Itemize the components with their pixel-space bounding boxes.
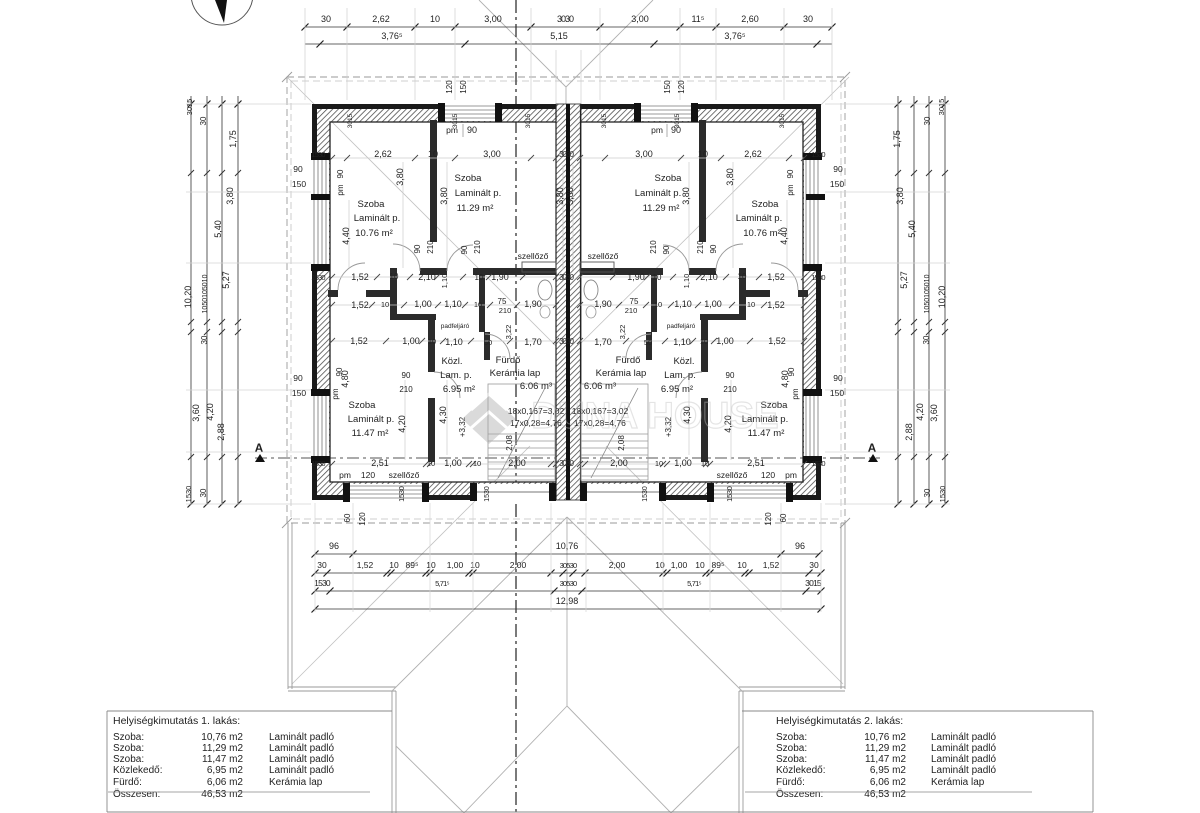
svg-text:2,10: 2,10 — [700, 272, 718, 282]
svg-text:10: 10 — [738, 272, 747, 281]
svg-text:2,60: 2,60 — [741, 14, 759, 24]
svg-text:10: 10 — [655, 560, 665, 570]
svg-text:6,95 m2: 6,95 m2 — [870, 765, 907, 776]
svg-text:30: 30 — [922, 335, 931, 344]
svg-text:50: 50 — [644, 338, 652, 347]
svg-text:120: 120 — [761, 470, 775, 480]
svg-text:120: 120 — [445, 80, 454, 94]
svg-text:1050105010: 1050105010 — [924, 274, 931, 313]
svg-text:3,76⁵: 3,76⁵ — [381, 31, 403, 41]
svg-text:4,20: 4,20 — [205, 403, 215, 421]
svg-text:1530: 1530 — [311, 150, 325, 159]
svg-text:3,80: 3,80 — [555, 187, 565, 205]
svg-text:3030: 3030 — [559, 273, 574, 282]
svg-text:10,76: 10,76 — [556, 541, 579, 551]
svg-text:10: 10 — [747, 300, 755, 309]
svg-text:2,88: 2,88 — [904, 423, 914, 441]
svg-text:30: 30 — [199, 488, 208, 497]
svg-text:Fürdő:: Fürdő: — [776, 777, 805, 788]
svg-text:210: 210 — [649, 240, 658, 254]
svg-text:Szoba: Szoba — [349, 400, 377, 411]
svg-text:5,40: 5,40 — [907, 220, 917, 238]
svg-text:Szoba:: Szoba: — [776, 732, 807, 743]
svg-text:3,80: 3,80 — [225, 187, 235, 205]
svg-text:12,98: 12,98 — [556, 596, 579, 606]
svg-text:2,00: 2,00 — [510, 560, 527, 570]
svg-text:Szoba: Szoba — [358, 199, 386, 210]
svg-text:90: 90 — [293, 373, 303, 383]
svg-text:3,60: 3,60 — [929, 404, 939, 422]
svg-text:6.06 m³: 6.06 m³ — [584, 381, 616, 392]
svg-text:11,29 m2: 11,29 m2 — [865, 743, 906, 754]
svg-text:Laminált padló: Laminált padló — [269, 743, 334, 754]
svg-text:pm: pm — [331, 388, 340, 399]
svg-text:3,00: 3,00 — [635, 149, 653, 159]
svg-text:Fürdő: Fürdő — [616, 355, 641, 366]
svg-text:150: 150 — [830, 179, 844, 189]
svg-text:1530: 1530 — [311, 273, 325, 282]
svg-text:2,51: 2,51 — [371, 458, 389, 468]
svg-text:2,00: 2,00 — [508, 458, 526, 468]
svg-text:11⁵: 11⁵ — [691, 14, 704, 24]
svg-text:4,80: 4,80 — [780, 370, 790, 388]
svg-text:60: 60 — [343, 513, 352, 522]
svg-text:3,60: 3,60 — [191, 404, 201, 422]
svg-text:210: 210 — [696, 240, 705, 254]
svg-text:10: 10 — [473, 459, 481, 468]
svg-text:2,62: 2,62 — [372, 14, 390, 24]
svg-text:150: 150 — [292, 179, 306, 189]
svg-text:1,75: 1,75 — [892, 130, 902, 148]
svg-text:96: 96 — [795, 541, 805, 551]
svg-text:padfeljáró: padfeljáró — [441, 323, 470, 330]
svg-text:1,70: 1,70 — [594, 337, 612, 347]
svg-text:Laminált p.: Laminált p. — [736, 213, 782, 224]
svg-text:30: 30 — [809, 560, 819, 570]
svg-text:1,52: 1,52 — [763, 560, 780, 570]
svg-text:Fürdő:: Fürdő: — [113, 777, 142, 788]
svg-text:10: 10 — [389, 560, 399, 570]
svg-text:szellőző: szellőző — [518, 251, 549, 261]
svg-text:11,47 m2: 11,47 m2 — [202, 754, 243, 765]
svg-text:3,76⁵: 3,76⁵ — [724, 31, 746, 41]
svg-text:11.47 m²: 11.47 m² — [352, 428, 389, 439]
svg-text:6,06 m2: 6,06 m2 — [207, 777, 244, 788]
svg-text:10: 10 — [430, 14, 440, 24]
svg-text:89⁵: 89⁵ — [712, 560, 725, 570]
svg-text:150: 150 — [292, 388, 306, 398]
svg-text:10: 10 — [470, 560, 480, 570]
svg-text:Szoba:: Szoba: — [776, 743, 807, 754]
svg-text:Laminált padló: Laminált padló — [269, 732, 334, 743]
svg-text:1530: 1530 — [811, 459, 825, 468]
svg-text:3,22: 3,22 — [504, 325, 513, 340]
svg-text:Szoba:: Szoba: — [776, 754, 807, 765]
svg-text:Szoba: Szoba — [455, 173, 483, 184]
svg-text:3015: 3015 — [347, 113, 354, 128]
svg-text:10: 10 — [654, 300, 662, 309]
svg-text:4,40: 4,40 — [341, 227, 351, 245]
svg-text:10.76 m²: 10.76 m² — [355, 228, 393, 239]
svg-text:4,80: 4,80 — [340, 370, 350, 388]
svg-text:11,29 m2: 11,29 m2 — [202, 743, 243, 754]
svg-text:1,10: 1,10 — [682, 274, 691, 289]
svg-text:Laminált padló: Laminált padló — [269, 765, 334, 776]
svg-text:210: 210 — [723, 385, 737, 394]
svg-text:1530: 1530 — [184, 486, 193, 503]
svg-text:1,00: 1,00 — [674, 458, 692, 468]
svg-text:5,15: 5,15 — [550, 31, 568, 41]
svg-text:2,10: 2,10 — [418, 272, 436, 282]
svg-text:210: 210 — [625, 306, 638, 315]
svg-text:1,52: 1,52 — [350, 336, 368, 346]
svg-text:3,80: 3,80 — [895, 187, 905, 205]
svg-text:pm: pm — [791, 388, 800, 399]
svg-text:10: 10 — [695, 560, 705, 570]
svg-text:10: 10 — [475, 273, 484, 282]
svg-text:1,10: 1,10 — [673, 337, 691, 347]
svg-text:3030: 3030 — [559, 150, 574, 159]
svg-text:10: 10 — [474, 300, 482, 309]
svg-text:pm: pm — [339, 470, 351, 480]
svg-text:10: 10 — [737, 560, 747, 570]
svg-text:30: 30 — [923, 488, 932, 497]
svg-text:10,20: 10,20 — [937, 286, 947, 309]
svg-text:30: 30 — [317, 560, 327, 570]
svg-text:3,80: 3,80 — [725, 168, 735, 186]
svg-text:Kerámia lap: Kerámia lap — [931, 777, 985, 788]
svg-text:1,90: 1,90 — [627, 272, 645, 282]
svg-text:10: 10 — [428, 337, 436, 346]
svg-text:3015: 3015 — [525, 113, 532, 128]
svg-text:2,00: 2,00 — [610, 458, 628, 468]
svg-text:1,52: 1,52 — [767, 300, 785, 310]
svg-text:90: 90 — [460, 245, 469, 254]
svg-text:1,90: 1,90 — [491, 272, 509, 282]
svg-text:150: 150 — [830, 388, 844, 398]
svg-text:210: 210 — [399, 385, 413, 394]
svg-text:3015: 3015 — [779, 113, 786, 128]
svg-text:3030: 3030 — [559, 459, 574, 468]
svg-text:10: 10 — [655, 459, 663, 468]
svg-text:1530: 1530 — [811, 150, 825, 159]
svg-text:11.29 m²: 11.29 m² — [457, 203, 494, 214]
svg-text:2,08: 2,08 — [617, 435, 626, 451]
svg-text:szellőző: szellőző — [389, 470, 420, 480]
svg-text:90: 90 — [786, 169, 795, 178]
svg-text:1,75: 1,75 — [228, 130, 238, 148]
svg-text:DUNA HOUSE: DUNA HOUSE — [531, 395, 778, 436]
svg-text:5,40: 5,40 — [213, 220, 223, 238]
svg-text:1,90: 1,90 — [524, 299, 542, 309]
svg-text:pm: pm — [336, 184, 345, 195]
svg-text:Szoba:: Szoba: — [113, 732, 144, 743]
svg-text:Kerámia lap: Kerámia lap — [490, 368, 541, 379]
svg-text:1,00: 1,00 — [671, 560, 688, 570]
svg-text:pm: pm — [785, 470, 797, 480]
svg-text:120: 120 — [764, 512, 773, 526]
svg-text:10: 10 — [428, 149, 438, 159]
svg-text:3,80: 3,80 — [395, 168, 405, 186]
svg-text:A: A — [255, 441, 264, 455]
svg-text:10: 10 — [653, 273, 662, 282]
svg-text:90: 90 — [726, 371, 735, 380]
svg-text:30530: 30530 — [560, 579, 577, 588]
svg-text:90: 90 — [709, 244, 718, 253]
svg-text:90: 90 — [402, 371, 411, 380]
svg-text:10: 10 — [390, 272, 399, 281]
svg-text:120: 120 — [361, 470, 375, 480]
svg-text:6.06 m³: 6.06 m³ — [520, 381, 552, 392]
svg-text:30530: 30530 — [560, 561, 577, 570]
svg-text:Laminált padló: Laminált padló — [931, 743, 996, 754]
svg-text:Helyiségkimutatás 2. lakás:: Helyiségkimutatás 2. lakás: — [776, 715, 903, 727]
svg-text:Szoba: Szoba — [752, 199, 780, 210]
svg-text:Szoba:: Szoba: — [113, 743, 144, 754]
svg-text:3,00: 3,00 — [631, 14, 649, 24]
svg-text:10,20: 10,20 — [183, 286, 193, 309]
svg-text:5,27: 5,27 — [899, 271, 909, 289]
svg-text:210: 210 — [499, 306, 512, 315]
svg-text:3,80: 3,80 — [681, 187, 691, 205]
svg-text:3015: 3015 — [674, 113, 681, 128]
svg-text:1,10: 1,10 — [445, 337, 463, 347]
svg-text:3015: 3015 — [601, 113, 608, 128]
svg-text:2,51: 2,51 — [747, 458, 765, 468]
svg-text:10: 10 — [427, 459, 435, 468]
svg-text:89⁵: 89⁵ — [406, 560, 419, 570]
svg-text:90: 90 — [467, 125, 477, 135]
svg-text:4,20: 4,20 — [915, 403, 925, 421]
svg-text:10,76 m2: 10,76 m2 — [201, 732, 243, 743]
svg-text:3015: 3015 — [185, 99, 194, 116]
svg-text:Laminált p.: Laminált p. — [455, 188, 501, 199]
svg-text:Összesen:: Összesen: — [113, 788, 160, 800]
svg-text:3,00: 3,00 — [483, 149, 501, 159]
svg-text:Közl.: Közl. — [441, 356, 462, 367]
svg-text:90: 90 — [293, 164, 303, 174]
svg-text:Helyiségkimutatás 1. lakás:: Helyiségkimutatás 1. lakás: — [113, 715, 240, 727]
svg-text:1,00: 1,00 — [402, 336, 420, 346]
svg-text:1,70: 1,70 — [524, 337, 542, 347]
svg-text:4,20: 4,20 — [397, 415, 407, 433]
svg-text:pm: pm — [651, 125, 663, 135]
svg-text:Laminált padló: Laminált padló — [931, 732, 996, 743]
svg-text:90: 90 — [336, 169, 345, 178]
svg-text:1,10: 1,10 — [674, 299, 692, 309]
svg-text:Laminált padló: Laminált padló — [269, 754, 334, 765]
svg-text:3015: 3015 — [452, 113, 459, 128]
svg-text:96: 96 — [329, 541, 339, 551]
svg-text:90: 90 — [833, 373, 843, 383]
svg-text:Közlekedő:: Közlekedő: — [776, 765, 825, 776]
svg-text:10.76 m²: 10.76 m² — [743, 228, 781, 239]
svg-text:90: 90 — [413, 244, 422, 253]
svg-text:3030: 3030 — [559, 337, 574, 346]
svg-text:1,00: 1,00 — [414, 299, 432, 309]
svg-text:5,71⁵: 5,71⁵ — [435, 579, 449, 588]
svg-text:szellőző: szellőző — [588, 251, 619, 261]
svg-text:75: 75 — [498, 297, 507, 306]
svg-text:1050105010: 1050105010 — [202, 274, 209, 313]
svg-text:10: 10 — [701, 459, 709, 468]
svg-text:2,88: 2,88 — [216, 423, 226, 441]
svg-text:10: 10 — [700, 337, 708, 346]
svg-text:5,71⁵: 5,71⁵ — [687, 579, 701, 588]
svg-text:1,52: 1,52 — [351, 300, 369, 310]
svg-text:6,95 m2: 6,95 m2 — [207, 765, 244, 776]
svg-text:2,62: 2,62 — [744, 149, 762, 159]
svg-text:30: 30 — [200, 335, 209, 344]
svg-text:1,90: 1,90 — [594, 299, 612, 309]
svg-text:Szoba: Szoba — [655, 173, 683, 184]
svg-text:1530: 1530 — [938, 486, 947, 503]
svg-text:50: 50 — [484, 338, 492, 347]
svg-text:3,80: 3,80 — [439, 187, 449, 205]
svg-text:120: 120 — [358, 512, 367, 526]
svg-text:Laminált padló: Laminált padló — [931, 754, 996, 765]
svg-text:3015: 3015 — [805, 578, 822, 588]
svg-text:10: 10 — [381, 300, 389, 309]
svg-text:Közl.: Közl. — [673, 356, 694, 367]
svg-text:1,52: 1,52 — [351, 272, 369, 282]
svg-text:1530: 1530 — [642, 486, 649, 502]
svg-text:11,47 m2: 11,47 m2 — [865, 754, 906, 765]
svg-text:1,00: 1,00 — [444, 458, 462, 468]
svg-text:3,22: 3,22 — [618, 325, 627, 340]
svg-text:1,52: 1,52 — [767, 272, 785, 282]
svg-text:1,52: 1,52 — [768, 336, 786, 346]
svg-text:pm: pm — [786, 184, 795, 195]
svg-text:90: 90 — [833, 164, 843, 174]
svg-text:30: 30 — [199, 116, 208, 125]
svg-text:1,00: 1,00 — [716, 336, 734, 346]
svg-text:1,10: 1,10 — [444, 299, 462, 309]
svg-text:Laminált padló: Laminált padló — [931, 765, 996, 776]
svg-text:120: 120 — [677, 80, 686, 94]
svg-text:1,00: 1,00 — [704, 299, 722, 309]
svg-text:1,00: 1,00 — [447, 560, 464, 570]
svg-text:4,30: 4,30 — [438, 406, 448, 424]
svg-text:1530: 1530 — [311, 459, 325, 468]
svg-text:6.95 m²: 6.95 m² — [443, 384, 475, 395]
svg-text:1530: 1530 — [727, 486, 734, 502]
svg-text:46,53 m2: 46,53 m2 — [864, 789, 906, 800]
svg-text:60: 60 — [779, 513, 788, 522]
svg-text:Közlekedő:: Közlekedő: — [113, 765, 162, 776]
svg-text:Szoba:: Szoba: — [113, 754, 144, 765]
svg-text:3,80: 3,80 — [565, 187, 575, 205]
svg-text:6,06 m2: 6,06 m2 — [870, 777, 907, 788]
svg-text:Kerámia lap: Kerámia lap — [596, 368, 647, 379]
svg-text:46,53 m2: 46,53 m2 — [201, 789, 243, 800]
svg-text:1530: 1530 — [484, 486, 491, 502]
svg-text:30: 30 — [923, 116, 932, 125]
svg-text:90: 90 — [662, 245, 671, 254]
svg-text:11.29 m²: 11.29 m² — [643, 203, 680, 214]
svg-text:10: 10 — [426, 560, 436, 570]
svg-text:210: 210 — [473, 240, 482, 254]
svg-text:Fürdő: Fürdő — [496, 355, 521, 366]
svg-text:10: 10 — [698, 149, 708, 159]
svg-text:Lam. p.: Lam. p. — [664, 370, 696, 381]
svg-text:2,62: 2,62 — [374, 149, 392, 159]
svg-text:1530: 1530 — [811, 273, 825, 282]
svg-text:1530: 1530 — [314, 578, 331, 588]
svg-text:3030: 3030 — [557, 14, 574, 24]
svg-text:1,52: 1,52 — [357, 560, 374, 570]
svg-text:5,27: 5,27 — [221, 271, 231, 289]
svg-text:Lam. p.: Lam. p. — [440, 370, 472, 381]
svg-text:150: 150 — [663, 80, 672, 94]
svg-text:6.95 m²: 6.95 m² — [661, 384, 693, 395]
svg-text:A: A — [868, 441, 877, 455]
svg-text:30: 30 — [803, 14, 813, 24]
svg-text:30: 30 — [321, 14, 331, 24]
svg-text:szellőző: szellőző — [717, 470, 748, 480]
svg-text:Laminált p.: Laminált p. — [354, 213, 400, 224]
svg-text:2,08: 2,08 — [505, 435, 514, 451]
svg-text:3015: 3015 — [937, 99, 946, 116]
svg-text:75: 75 — [630, 297, 639, 306]
svg-text:padfeljáró: padfeljáró — [667, 323, 696, 330]
svg-text:10,76 m2: 10,76 m2 — [864, 732, 906, 743]
svg-text:Kerámia lap: Kerámia lap — [269, 777, 323, 788]
svg-text:Laminált p.: Laminált p. — [348, 414, 394, 425]
svg-text:1530: 1530 — [399, 486, 406, 502]
svg-text:Összesen:: Összesen: — [776, 788, 823, 800]
svg-text:1,10: 1,10 — [440, 274, 449, 289]
svg-text:3,00: 3,00 — [484, 14, 502, 24]
svg-text:210: 210 — [426, 240, 435, 254]
svg-text:2,00: 2,00 — [609, 560, 626, 570]
svg-text:150: 150 — [459, 80, 468, 94]
svg-text:Laminált p.: Laminált p. — [635, 188, 681, 199]
